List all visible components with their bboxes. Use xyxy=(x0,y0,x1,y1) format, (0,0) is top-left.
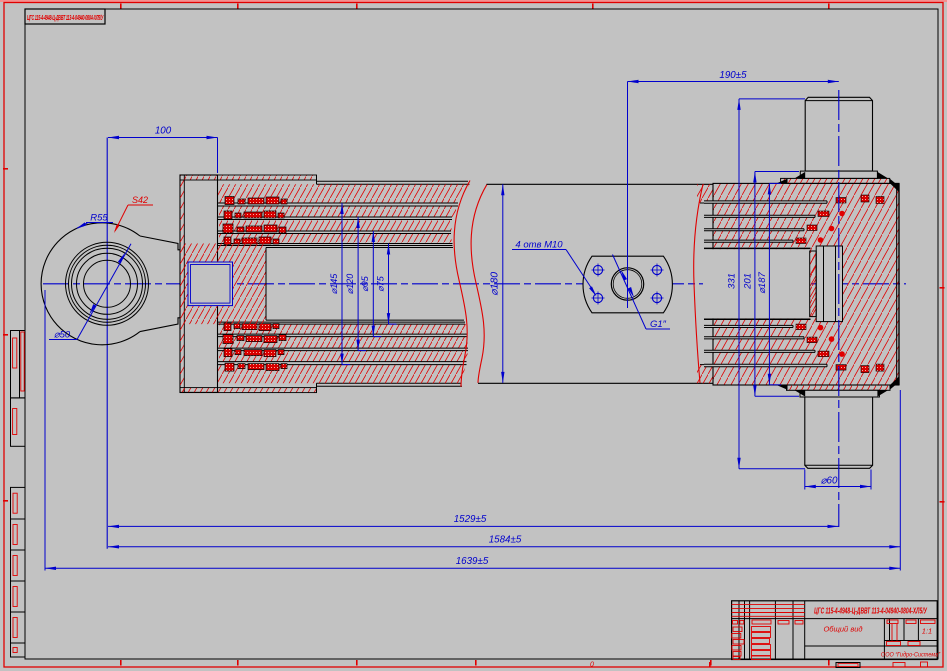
svg-text:ЦГС 115-4-4948-Ц-ДВВТ 113-4-04: ЦГС 115-4-4948-Ц-ДВВТ 113-4-04940-0804-Х… xyxy=(27,15,104,23)
head corner welds xyxy=(890,183,899,192)
svg-text:331: 331 xyxy=(727,273,738,289)
dim 1584±5 xyxy=(108,546,900,548)
tube outer lines (middle) xyxy=(487,183,714,185)
svg-text:190±5: 190±5 xyxy=(719,70,747,81)
title block grid xyxy=(732,601,938,660)
svg-text:Общий вид: Общий вид xyxy=(823,625,862,634)
svg-text:0: 0 xyxy=(590,662,594,669)
dim 201 xyxy=(754,172,756,397)
svg-text:⌀50: ⌀50 xyxy=(54,330,71,341)
clevis body xyxy=(140,236,181,332)
dim ⌀75 xyxy=(388,244,390,325)
svg-text:S42: S42 xyxy=(132,195,148,205)
piston rod section xyxy=(182,244,266,325)
stamp box xyxy=(25,9,105,24)
head bore step lines xyxy=(704,200,827,202)
rod outer lines xyxy=(266,247,453,249)
gland bore step lines xyxy=(218,202,458,204)
frame zone marks xyxy=(120,4,122,9)
fold marks xyxy=(836,663,860,668)
svg-text:100: 100 xyxy=(155,126,172,137)
svg-text:⌀180: ⌀180 xyxy=(489,272,501,296)
svg-text:4 отв М10: 4 отв М10 xyxy=(515,240,563,251)
svg-text:⌀75: ⌀75 xyxy=(375,275,385,291)
port vertical centerline xyxy=(627,82,629,309)
title block field marks xyxy=(733,621,738,625)
svg-text:G1″: G1″ xyxy=(650,319,667,330)
dim ⌀145 xyxy=(341,203,343,365)
svg-text:⌀95: ⌀95 xyxy=(360,275,370,291)
svg-text:ЦГС 115-4-4948-Ц-ДВВТ 113-4-04: ЦГС 115-4-4948-Ц-ДВВТ 113-4-04940-0804-Х… xyxy=(814,607,928,616)
svg-text:R55: R55 xyxy=(90,213,108,224)
left margin column boxes xyxy=(11,331,26,398)
break line right xyxy=(471,184,487,383)
main horizontal centerline xyxy=(43,283,906,285)
dim d187 xyxy=(768,183,770,384)
svg-text:⌀60: ⌀60 xyxy=(821,476,838,487)
bottom trunnion xyxy=(787,385,891,390)
svg-text:1584±5: 1584±5 xyxy=(489,535,522,546)
head bore cavity xyxy=(704,201,827,203)
port flange xyxy=(583,256,672,313)
rod seal packs xyxy=(225,197,234,205)
trunnion centerline xyxy=(838,90,840,527)
tube wall hatch at head xyxy=(697,184,713,203)
svg-text:1529±5: 1529±5 xyxy=(454,514,487,525)
svg-text:1:1: 1:1 xyxy=(922,627,932,636)
piston cavity xyxy=(816,246,842,322)
svg-text:⌀187: ⌀187 xyxy=(757,272,768,294)
dim d60 xyxy=(805,486,871,488)
rod end window xyxy=(188,262,233,306)
dimension d180 xyxy=(502,184,504,383)
port bolt holes M10 xyxy=(593,265,602,274)
dim 1639±5 xyxy=(45,567,900,569)
title block header rows xyxy=(732,604,805,606)
dim 1529±5 xyxy=(108,525,839,527)
head seal patches xyxy=(818,211,829,217)
red seal dots xyxy=(839,211,845,217)
eye vertical centerline xyxy=(106,138,108,549)
top trunnion xyxy=(805,97,872,171)
cylinder tube outer wall (left) xyxy=(317,180,469,182)
svg-text:⌀145: ⌀145 xyxy=(329,273,339,294)
break line left xyxy=(454,181,470,387)
svg-text:⌀120: ⌀120 xyxy=(345,274,355,294)
dim ⌀95 xyxy=(372,231,374,337)
paper top edge line xyxy=(0,0,947,2)
svg-text:201: 201 xyxy=(742,273,753,290)
svg-text:ООО “Гидро-Система”: ООО “Гидро-Система” xyxy=(881,652,941,658)
svg-text:1639±5: 1639±5 xyxy=(456,556,489,567)
head block hatch xyxy=(713,183,899,385)
dim ⌀120 xyxy=(357,217,359,351)
gland housing hatch xyxy=(218,184,470,203)
dim 190±5 xyxy=(628,81,839,83)
head right face xyxy=(896,183,898,385)
dim 331 xyxy=(738,99,740,469)
extension lines bottom xyxy=(44,290,46,571)
dim 100 xyxy=(108,137,218,139)
gland retainer plate xyxy=(180,175,218,392)
rod-end spherical eye circles xyxy=(41,223,140,345)
weld break curve at head xyxy=(694,184,703,383)
